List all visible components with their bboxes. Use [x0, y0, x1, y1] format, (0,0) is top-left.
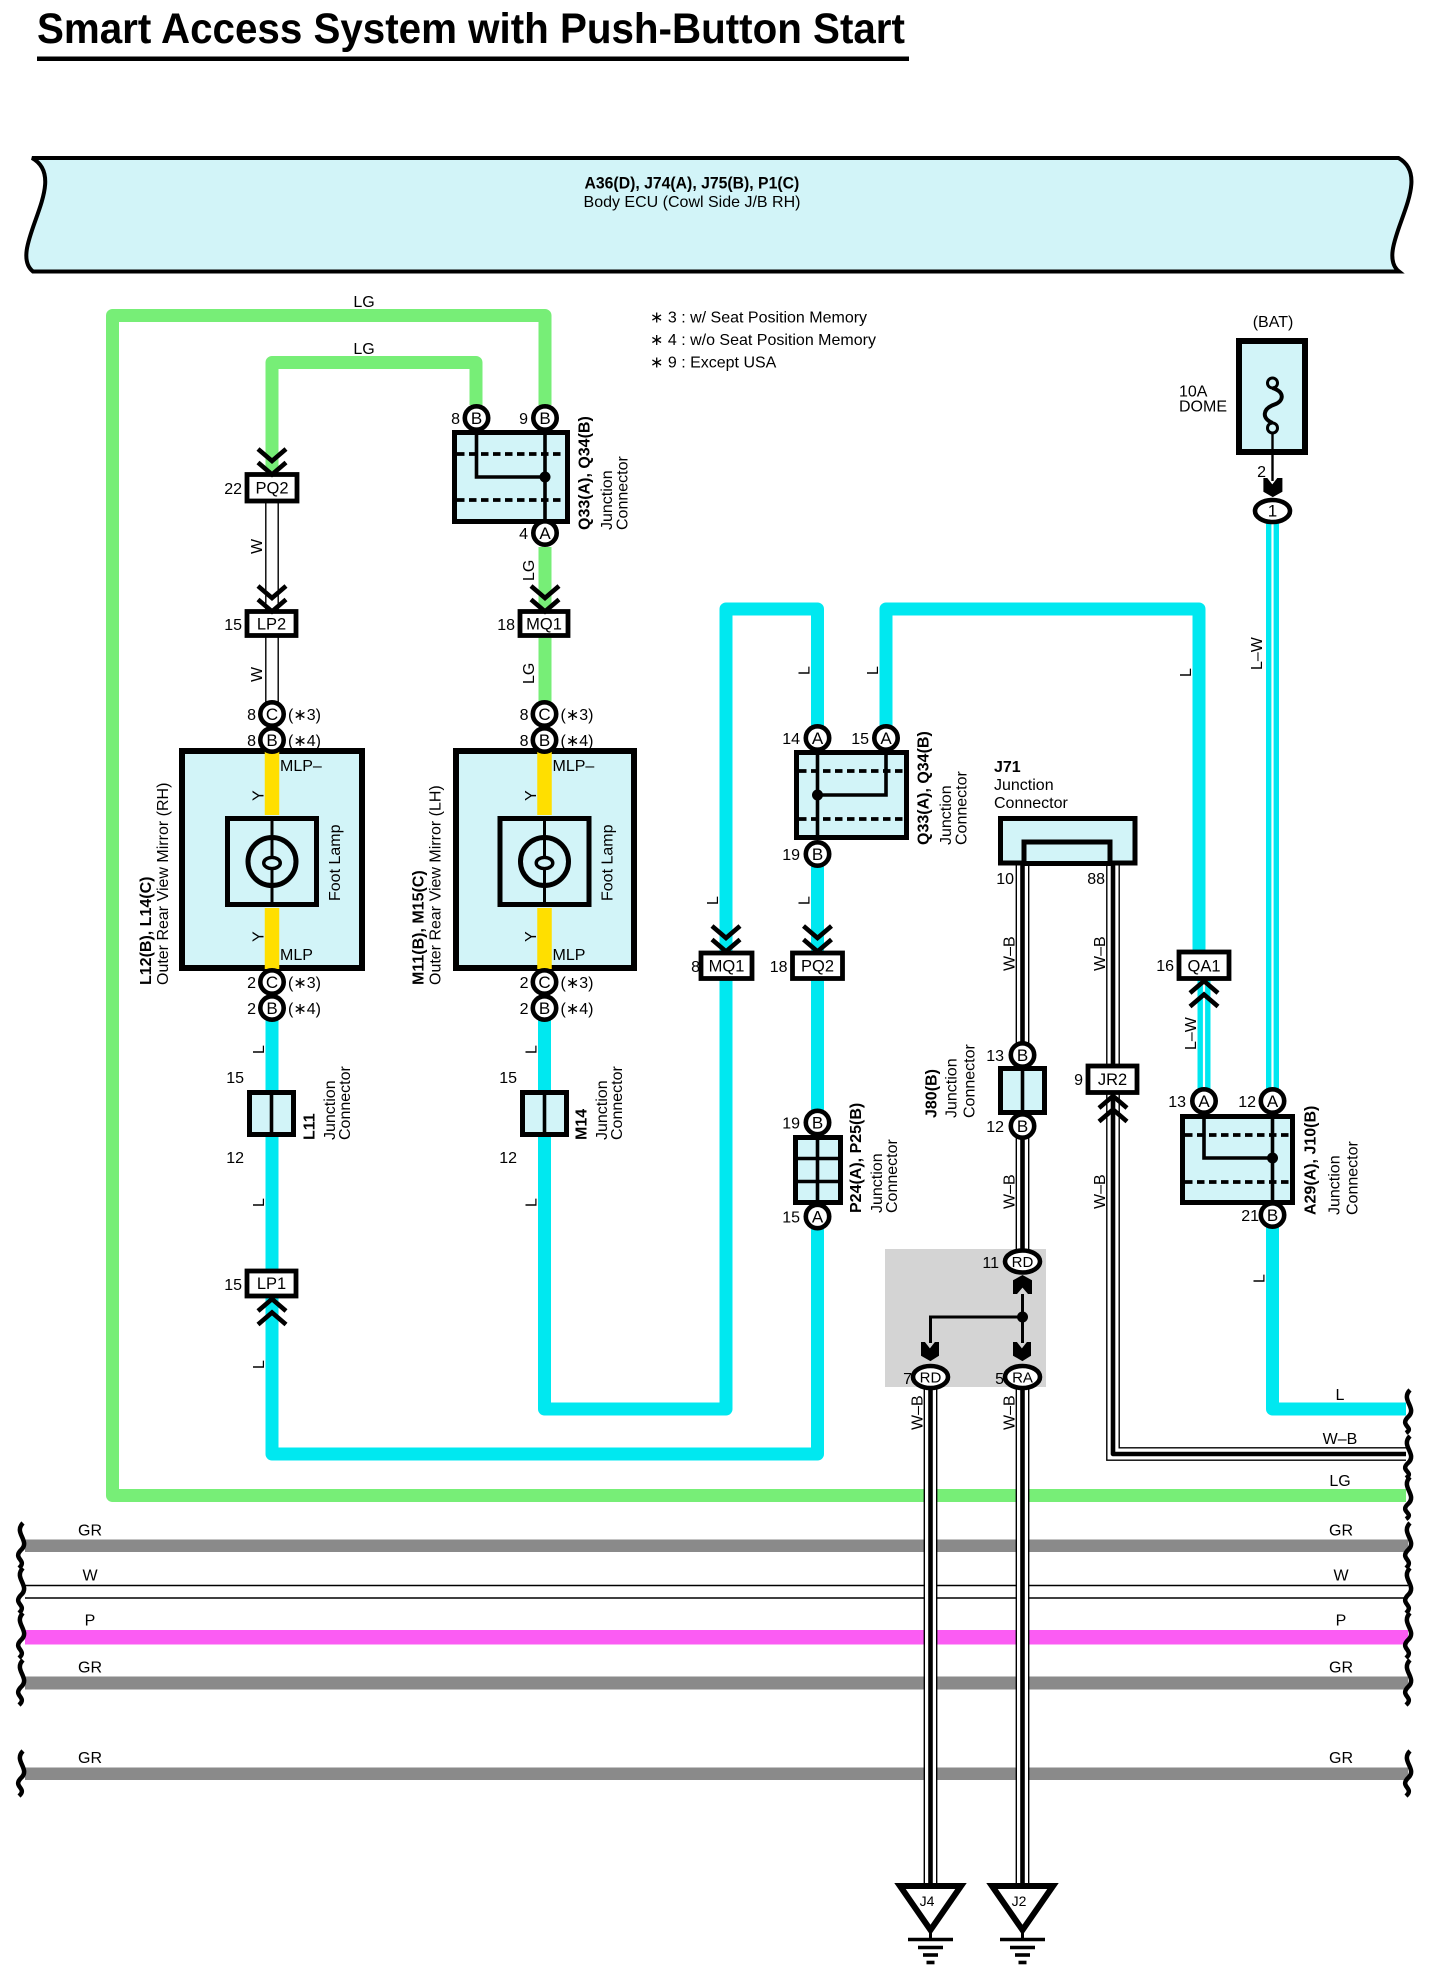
svg-text:RD: RD: [920, 1370, 942, 1387]
svg-text:B: B: [812, 845, 823, 864]
svg-text:Connector: Connector: [994, 795, 1068, 812]
svg-text:Connector: Connector: [962, 1044, 979, 1118]
svg-text:W–B: W–B: [1092, 1174, 1109, 1209]
svg-text:L–W: L–W: [1249, 636, 1266, 670]
svg-text:L: L: [865, 666, 882, 675]
svg-text:QA1: QA1: [1187, 958, 1220, 976]
svg-text:L: L: [1252, 1274, 1269, 1283]
svg-text:Junction: Junction: [994, 777, 1054, 794]
svg-text:LG: LG: [353, 294, 374, 311]
svg-text:1: 1: [1268, 502, 1277, 521]
svg-text:GR: GR: [1329, 1750, 1353, 1767]
svg-text:22: 22: [224, 481, 242, 498]
svg-text:W–B: W–B: [910, 1395, 927, 1430]
svg-text:MLP: MLP: [280, 947, 313, 964]
svg-text:MLP: MLP: [553, 947, 586, 964]
svg-text:JR2: JR2: [1098, 1071, 1127, 1089]
svg-text:(∗4): (∗4): [561, 733, 594, 750]
svg-text:11: 11: [982, 1255, 999, 1272]
svg-text:2: 2: [520, 1001, 529, 1018]
svg-text:9: 9: [1074, 1072, 1083, 1089]
svg-text:A: A: [1198, 1092, 1210, 1111]
svg-text:16: 16: [1156, 958, 1174, 975]
svg-text:Foot Lamp: Foot Lamp: [600, 824, 617, 901]
svg-text:Y: Y: [251, 931, 268, 942]
svg-text:Connector: Connector: [1345, 1141, 1362, 1215]
svg-text:A: A: [539, 524, 551, 543]
svg-text:B: B: [539, 409, 550, 428]
svg-text:J71: J71: [994, 759, 1021, 776]
svg-text:8: 8: [520, 707, 529, 724]
svg-text:5: 5: [995, 1371, 1004, 1388]
svg-text:∗ 9 : Except USA: ∗ 9 : Except USA: [650, 355, 777, 372]
svg-text:W: W: [1333, 1568, 1349, 1585]
svg-text:7: 7: [903, 1371, 912, 1388]
svg-text:19: 19: [782, 1116, 800, 1133]
svg-text:(∗3): (∗3): [561, 975, 594, 992]
svg-text:(∗4): (∗4): [561, 1001, 594, 1018]
svg-text:LG: LG: [353, 341, 374, 358]
svg-text:W–B: W–B: [1323, 1431, 1358, 1448]
svg-text:15: 15: [782, 1210, 800, 1227]
svg-text:Connector: Connector: [884, 1139, 901, 1213]
svg-text:J2: J2: [1012, 1893, 1027, 1909]
svg-text:15: 15: [499, 1070, 517, 1087]
svg-text:Junction: Junction: [938, 785, 955, 845]
svg-text:Smart Access System with Push-: Smart Access System with Push-Button Sta…: [37, 4, 905, 52]
svg-text:LG: LG: [521, 560, 538, 581]
svg-text:8: 8: [247, 733, 256, 750]
svg-text:18: 18: [497, 617, 515, 634]
svg-text:MLP–: MLP–: [553, 758, 595, 775]
svg-text:GR: GR: [78, 1660, 102, 1677]
svg-text:Junction: Junction: [599, 470, 616, 530]
svg-text:W–B: W–B: [1002, 1395, 1019, 1430]
svg-text:Connector: Connector: [337, 1066, 354, 1140]
svg-text:Foot Lamp: Foot Lamp: [327, 824, 344, 901]
svg-text:Connector: Connector: [609, 1066, 626, 1140]
svg-text:Junction: Junction: [1327, 1155, 1344, 1215]
svg-text:GR: GR: [78, 1523, 102, 1540]
svg-text:Y: Y: [523, 931, 540, 942]
svg-text:B: B: [266, 731, 277, 750]
svg-text:B: B: [1017, 1046, 1028, 1065]
svg-text:Body ECU (Cowl Side J/B RH): Body ECU (Cowl Side J/B RH): [584, 194, 801, 211]
svg-text:8: 8: [247, 707, 256, 724]
svg-text:15: 15: [851, 731, 869, 748]
svg-text:W: W: [249, 666, 266, 682]
svg-text:2: 2: [247, 975, 256, 992]
svg-text:L: L: [251, 1360, 268, 1369]
svg-text:P: P: [85, 1613, 96, 1630]
svg-text:L: L: [251, 1198, 268, 1207]
svg-text:C: C: [538, 705, 550, 724]
svg-text:B: B: [1017, 1117, 1028, 1136]
svg-text:LG: LG: [1329, 1473, 1350, 1490]
svg-text:Outer Rear View Mirror (RH): Outer Rear View Mirror (RH): [155, 783, 172, 985]
svg-text:B: B: [1267, 1206, 1278, 1225]
svg-text:MQ1: MQ1: [526, 616, 562, 634]
svg-text:Y: Y: [523, 790, 540, 801]
svg-text:L: L: [524, 1198, 541, 1207]
svg-text:Connector: Connector: [954, 771, 971, 845]
svg-text:L12(B), L14(C): L12(B), L14(C): [138, 877, 155, 985]
svg-text:LP2: LP2: [257, 616, 286, 634]
svg-text:B: B: [266, 999, 277, 1018]
svg-text:W–B: W–B: [1002, 1174, 1019, 1209]
svg-text:J4: J4: [920, 1893, 935, 1909]
svg-text:L: L: [1178, 668, 1195, 677]
svg-text:2: 2: [1257, 464, 1266, 481]
svg-text:PQ2: PQ2: [801, 958, 834, 976]
svg-text:12: 12: [226, 1150, 244, 1167]
svg-text:Y: Y: [251, 790, 268, 801]
svg-text:A: A: [1267, 1092, 1279, 1111]
svg-text:RA: RA: [1012, 1370, 1033, 1387]
svg-text:L: L: [251, 1045, 268, 1054]
svg-text:W–B: W–B: [1002, 936, 1019, 971]
svg-text:L: L: [797, 666, 814, 675]
svg-text:L: L: [797, 896, 814, 905]
svg-text:12: 12: [1238, 1094, 1256, 1111]
svg-text:2: 2: [520, 975, 529, 992]
svg-text:15: 15: [224, 1277, 242, 1294]
svg-text:(∗3): (∗3): [288, 975, 321, 992]
svg-text:P24(A), P25(B): P24(A), P25(B): [848, 1103, 865, 1213]
svg-text:(∗3): (∗3): [561, 707, 594, 724]
svg-text:MQ1: MQ1: [709, 958, 745, 976]
svg-text:M11(B), M15(C): M11(B), M15(C): [411, 870, 428, 985]
svg-text:(BAT): (BAT): [1253, 314, 1294, 331]
svg-text:W–B: W–B: [1092, 936, 1109, 971]
svg-text:A: A: [880, 729, 892, 748]
svg-text:2: 2: [247, 1001, 256, 1018]
svg-text:Junction: Junction: [944, 1058, 961, 1118]
svg-text:GR: GR: [78, 1750, 102, 1767]
svg-text:B: B: [539, 999, 550, 1018]
svg-text:Q33(A), Q34(B): Q33(A), Q34(B): [915, 731, 932, 845]
svg-text:B: B: [471, 409, 482, 428]
svg-text:19: 19: [782, 847, 800, 864]
svg-text:(∗4): (∗4): [288, 1001, 321, 1018]
svg-text:A29(A), J10(B): A29(A), J10(B): [1303, 1106, 1320, 1215]
svg-text:L: L: [1336, 1387, 1345, 1404]
svg-text:8: 8: [451, 411, 460, 428]
svg-text:88: 88: [1087, 871, 1105, 888]
svg-text:15: 15: [224, 617, 242, 634]
svg-text:L–W: L–W: [1183, 1016, 1200, 1050]
svg-text:C: C: [266, 705, 278, 724]
svg-text:∗ 3 : w/ Seat Position Memory: ∗ 3 : w/ Seat Position Memory: [650, 310, 867, 327]
svg-text:4: 4: [519, 526, 528, 543]
svg-text:A: A: [812, 1208, 824, 1227]
svg-text:14: 14: [782, 731, 800, 748]
svg-text:18: 18: [770, 959, 788, 976]
svg-text:L: L: [524, 1045, 541, 1054]
svg-text:MLP–: MLP–: [280, 758, 322, 775]
svg-text:L11: L11: [302, 1113, 319, 1140]
svg-text:LG: LG: [521, 663, 538, 684]
svg-text:RD: RD: [1012, 1254, 1034, 1271]
svg-text:L: L: [705, 896, 722, 905]
svg-text:GR: GR: [1329, 1523, 1353, 1540]
svg-text:13: 13: [1168, 1094, 1186, 1111]
svg-text:P: P: [1336, 1613, 1347, 1630]
svg-text:8: 8: [520, 733, 529, 750]
svg-text:A36(D), J74(A), J75(B), P1(C): A36(D), J74(A), J75(B), P1(C): [585, 174, 800, 193]
svg-text:13: 13: [986, 1048, 1004, 1065]
svg-text:∗ 4 : w/o Seat Position Memory: ∗ 4 : w/o Seat Position Memory: [650, 332, 876, 349]
svg-text:A: A: [812, 729, 824, 748]
svg-text:12: 12: [499, 1150, 517, 1167]
svg-text:8: 8: [691, 959, 700, 976]
svg-text:DOME: DOME: [1179, 399, 1227, 416]
svg-text:(∗3): (∗3): [288, 707, 321, 724]
svg-text:W: W: [249, 538, 266, 554]
svg-text:GR: GR: [1329, 1660, 1353, 1677]
svg-text:C: C: [266, 973, 278, 992]
svg-text:B: B: [539, 731, 550, 750]
svg-text:PQ2: PQ2: [255, 480, 288, 498]
svg-text:Outer Rear View Mirror (LH): Outer Rear View Mirror (LH): [428, 785, 445, 985]
svg-text:21: 21: [1241, 1208, 1259, 1225]
svg-text:Q33(A), Q34(B): Q33(A), Q34(B): [577, 416, 594, 530]
svg-text:M14: M14: [574, 1109, 591, 1140]
svg-text:B: B: [812, 1114, 823, 1133]
svg-text:10: 10: [996, 871, 1014, 888]
svg-text:LP1: LP1: [257, 1275, 286, 1293]
svg-text:15: 15: [226, 1070, 244, 1087]
svg-text:J80(B): J80(B): [924, 1069, 941, 1118]
svg-text:12: 12: [986, 1119, 1004, 1136]
svg-text:W: W: [82, 1568, 98, 1585]
svg-text:C: C: [538, 973, 550, 992]
svg-text:(∗4): (∗4): [288, 733, 321, 750]
svg-text:9: 9: [519, 411, 528, 428]
svg-text:Connector: Connector: [615, 456, 632, 530]
